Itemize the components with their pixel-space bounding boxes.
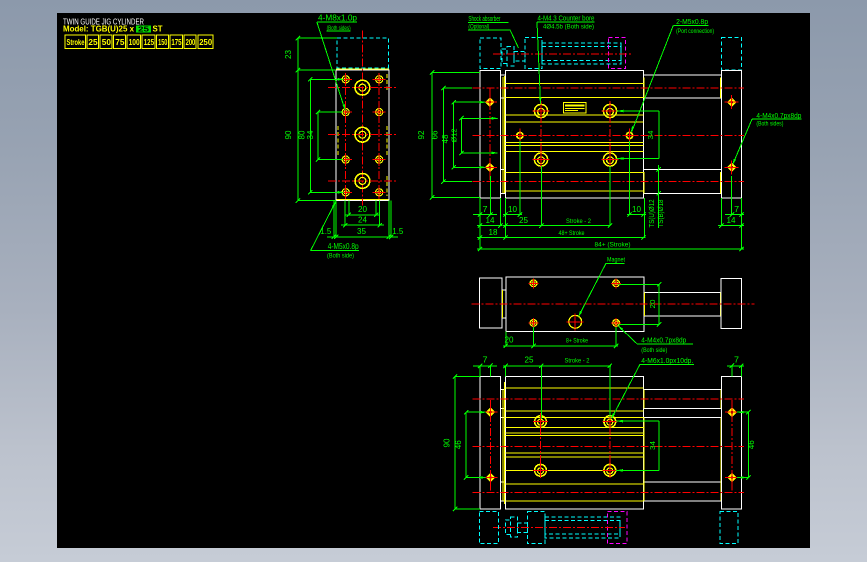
svg-text:7: 7: [734, 355, 740, 364]
svg-text:84+ (Stroke): 84+ (Stroke): [595, 241, 631, 248]
svg-text:4-M5x0.8p: 4-M5x0.8p: [328, 242, 359, 251]
svg-text:(Both side): (Both side): [327, 252, 354, 259]
svg-text:46: 46: [747, 440, 756, 450]
svg-text:66: 66: [430, 130, 439, 140]
svg-text:25: 25: [519, 216, 529, 225]
svg-text:90: 90: [284, 130, 293, 140]
svg-text:14: 14: [727, 216, 737, 225]
svg-text:80: 80: [298, 130, 307, 140]
svg-text:Model: TGB(U)25 x: Model: TGB(U)25 x: [63, 25, 135, 34]
svg-text:(Both sides): (Both sides): [756, 121, 783, 128]
svg-text:TS(B)Ø18: TS(B)Ø18: [658, 199, 665, 227]
svg-text:4-M8x1.0p: 4-M8x1.0p: [318, 14, 358, 23]
svg-text:Stroke - 2: Stroke - 2: [565, 357, 590, 364]
svg-text:20: 20: [505, 335, 515, 344]
svg-text:7: 7: [734, 205, 740, 214]
svg-text:50: 50: [102, 38, 112, 47]
svg-text:4-M6x1.0px10dp.: 4-M6x1.0px10dp.: [641, 358, 693, 365]
svg-text:100: 100: [129, 38, 141, 47]
svg-text:(Port connection): (Port connection): [676, 28, 714, 35]
svg-text:125: 125: [144, 38, 155, 47]
svg-text:20: 20: [648, 300, 657, 309]
svg-text:1.5: 1.5: [392, 227, 404, 236]
svg-text:10: 10: [508, 205, 518, 214]
svg-text:TS(U)Ø12: TS(U)Ø12: [649, 199, 656, 227]
svg-text:90: 90: [443, 438, 452, 448]
svg-text:250: 250: [199, 38, 212, 47]
svg-text:Ø12: Ø12: [449, 129, 458, 143]
svg-text:8+ Stroke: 8+ Stroke: [566, 337, 588, 344]
svg-text:2-M5x0.8p: 2-M5x0.8p: [676, 19, 708, 26]
svg-text:7: 7: [483, 355, 489, 364]
svg-text:(Both side): (Both side): [641, 347, 667, 354]
svg-text:(Optional): (Optional): [468, 23, 489, 30]
svg-text:ST: ST: [153, 25, 163, 34]
svg-text:Magnet: Magnet: [607, 257, 625, 264]
svg-text:75: 75: [115, 38, 125, 47]
svg-text:25: 25: [88, 38, 98, 47]
svg-text:10: 10: [632, 205, 642, 214]
svg-text:200: 200: [186, 38, 196, 47]
svg-text:25: 25: [138, 24, 149, 33]
svg-text:4Ø4.5b (Both side): 4Ø4.5b (Both side): [543, 23, 594, 30]
svg-text:Stroke - 2: Stroke - 2: [566, 218, 591, 225]
svg-text:25: 25: [525, 355, 535, 364]
svg-text:14: 14: [486, 216, 496, 225]
svg-text:23: 23: [284, 49, 293, 59]
svg-text:150: 150: [158, 38, 168, 47]
svg-text:Stroke: Stroke: [67, 38, 85, 47]
svg-text:34: 34: [646, 131, 655, 140]
svg-text:20: 20: [358, 205, 368, 214]
svg-text:34: 34: [306, 130, 315, 140]
svg-text:18: 18: [489, 228, 499, 237]
svg-text:48+ Stroke: 48+ Stroke: [559, 230, 585, 237]
svg-text:7: 7: [483, 205, 489, 214]
svg-text:46: 46: [454, 440, 463, 450]
svg-text:34: 34: [648, 441, 657, 450]
svg-text:35: 35: [357, 227, 367, 236]
svg-text:92: 92: [417, 130, 426, 140]
svg-text:175: 175: [171, 38, 182, 47]
svg-text:24: 24: [358, 216, 368, 225]
svg-text:4-M4x0.7px8dp: 4-M4x0.7px8dp: [641, 338, 686, 345]
